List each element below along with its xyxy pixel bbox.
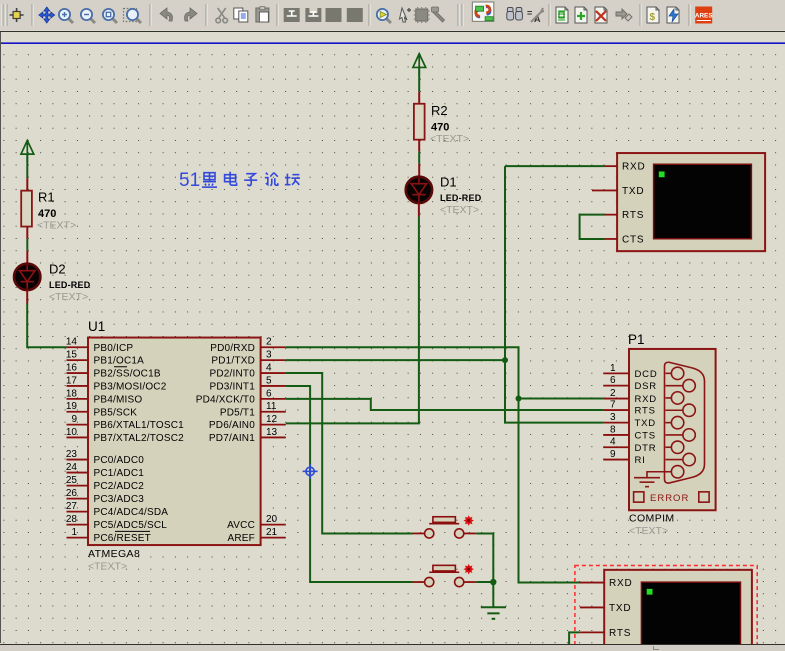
svg-text:RXD: RXD <box>622 162 646 173</box>
toolbar separator <box>149 4 151 26</box>
svg-text:PC2/ADC2: PC2/ADC2 <box>94 481 145 492</box>
svg-text:ARES: ARES <box>695 13 713 20</box>
toolbar grab handle <box>1 4 3 26</box>
wire button1 to ground junction <box>476 534 493 583</box>
icon: hammer tool <box>432 7 445 22</box>
wire VCC to R2 <box>418 68 420 92</box>
wire R1 to D2 <box>26 227 28 239</box>
svg-text:P1: P1 <box>628 332 645 347</box>
P1 DB9 hole left <box>666 471 672 473</box>
P1 DB9 hole right <box>666 459 683 461</box>
terminal 1 pin RXD <box>605 165 618 167</box>
P1 DB9 hole left <box>666 446 672 448</box>
svg-text:<TEXT>: <TEXT> <box>88 561 127 573</box>
toolbar bottom edge <box>0 31 785 33</box>
virtual terminal 1 body <box>617 153 765 251</box>
power terminal VCC (top) <box>413 54 426 75</box>
icon: zoom all <box>103 9 117 23</box>
svg-text:19: 19 <box>66 401 78 412</box>
svg-text:17: 17 <box>66 376 78 387</box>
svg-text:DSR: DSR <box>635 381 657 392</box>
svg-text:TXD: TXD <box>622 186 644 197</box>
svg-text:PD7/AIN1: PD7/AIN1 <box>209 433 255 444</box>
svg-text:LED-RED: LED-RED <box>49 280 91 290</box>
svg-text:D1: D1 <box>440 175 457 190</box>
P1 pin 3 TXD <box>603 422 629 424</box>
svg-text:<TEXT>: <TEXT> <box>430 133 469 145</box>
overbar SS on PB2 <box>114 366 127 368</box>
U1 pin 20 AVCC <box>261 524 286 526</box>
svg-text:=: = <box>527 8 532 18</box>
svg-text:21: 21 <box>266 527 278 538</box>
icon: remove sheet <box>595 7 607 23</box>
svg-text:<TEXT>: <TEXT> <box>37 220 76 232</box>
icon: goto sheet arrows <box>616 9 632 21</box>
U1 right pin 11 PD5/T1 <box>261 411 286 413</box>
svg-text:PD6/AIN0: PD6/AIN0 <box>209 420 255 431</box>
P1 DB9 hole left <box>666 422 672 424</box>
ground symbol <box>481 607 506 619</box>
U1 left pin 10 PB7/XTAL2/TOSC2 <box>67 437 89 439</box>
svg-text:R1: R1 <box>38 190 55 205</box>
P1 pin 9 RI <box>603 459 629 461</box>
svg-text:U1: U1 <box>88 319 105 334</box>
svg-text:<TEXT>: <TEXT> <box>629 525 668 537</box>
svg-text:PD3/INT1: PD3/INT1 <box>209 382 255 393</box>
sheet top border <box>0 42 785 44</box>
P1 DB9 hole left <box>666 397 672 399</box>
svg-text:TXD: TXD <box>635 418 656 429</box>
U1 left pin 27 PC4/ADC4/SDA <box>67 511 89 513</box>
svg-text:11: 11 <box>266 401 277 412</box>
U1 right pin 13 PD7/AIN1 <box>261 437 286 439</box>
selection box (red dashed) around terminal 2 <box>575 566 757 651</box>
U1 left pin 1 PC6/RESET <box>67 537 89 539</box>
junction PD1 net <box>502 357 508 363</box>
svg-text:PB7/XTAL2/TOSC2: PB7/XTAL2/TOSC2 <box>94 433 185 444</box>
svg-text:6: 6 <box>610 375 616 386</box>
svg-text:D2: D2 <box>49 262 66 277</box>
svg-text:<TEXT>: <TEXT> <box>49 291 88 303</box>
wire R2 to D1 <box>418 140 420 152</box>
icon: component/chip <box>414 7 430 23</box>
icon: design explorer <box>556 7 568 23</box>
P1 DB9 hole right <box>666 409 683 411</box>
svg-text:RTS: RTS <box>609 628 631 639</box>
toolbar separator <box>461 4 463 26</box>
U1 left pin 9 PB6/XTAL1/TOSC1 <box>67 424 89 426</box>
icon: pan <box>39 7 55 23</box>
toolbar separator <box>368 4 370 26</box>
U1 left pin 16 PB2/SS/OC1B <box>67 372 89 374</box>
terminal 1 screen <box>654 164 752 239</box>
svg-text:PC5/ADC5/SCL: PC5/ADC5/SCL <box>94 520 168 531</box>
P1 pin 2 RXD <box>603 398 629 400</box>
icon: undo <box>160 8 172 21</box>
connector P1 COMPIM body <box>629 349 716 510</box>
svg-text:23: 23 <box>66 449 78 460</box>
svg-text:TXD: TXD <box>609 603 631 614</box>
terminal 2 pin RTS <box>580 632 604 634</box>
svg-text:24: 24 <box>66 462 78 473</box>
svg-text:14: 14 <box>66 337 78 348</box>
LED D2 <box>14 264 40 290</box>
toolbar separator <box>457 4 459 26</box>
svg-text:PB4/MISO: PB4/MISO <box>94 395 143 406</box>
toolbar separator <box>276 4 278 26</box>
svg-text:<TEXT>: <TEXT> <box>440 204 479 216</box>
svg-text:PB5/SCK: PB5/SCK <box>94 408 138 419</box>
svg-text:PB2/SS/OC1B: PB2/SS/OC1B <box>94 369 161 380</box>
U1 left pin 19 PB5/SCK <box>67 411 89 413</box>
push button SW2 <box>413 566 477 587</box>
icon: block copy <box>284 8 300 22</box>
resistor R2 <box>414 104 425 140</box>
U1 left pin 17 PB3/MOSI/OC2 <box>67 385 89 387</box>
U1 right pin 6 PD4/XCK/T0 <box>261 398 286 400</box>
svg-text:RI: RI <box>635 455 646 466</box>
svg-text:PC0/ADC0: PC0/ADC0 <box>94 455 145 466</box>
icon: new object cursor <box>400 8 412 22</box>
icon: block rotate <box>326 8 342 22</box>
status bar top edge <box>0 644 785 646</box>
svg-text:25: 25 <box>66 475 78 486</box>
svg-text:PC1/ADC1: PC1/ADC1 <box>94 468 145 479</box>
U1 left pin 24 PC1/ADC1 <box>67 472 89 474</box>
U1 right pin 3 PD1/TXD <box>261 359 286 361</box>
P1 DB9 hole right <box>666 434 683 436</box>
P1 pin 1 DCD <box>603 373 629 375</box>
terminal 1 pin RTS <box>605 214 618 216</box>
svg-text:16: 16 <box>66 363 78 374</box>
terminal 1 pin CTS <box>605 238 618 240</box>
status bar mark <box>653 646 659 650</box>
origin marker (blue crosshair) <box>303 464 318 479</box>
P1 DB9 hole left <box>666 373 672 375</box>
svg-text:26: 26 <box>66 488 78 499</box>
svg-text:CTS: CTS <box>622 235 644 246</box>
terminal 1 cursor <box>659 172 665 178</box>
svg-text:28: 28 <box>66 514 78 525</box>
icon: copy <box>234 8 248 22</box>
svg-text:10: 10 <box>66 427 78 438</box>
svg-text:9: 9 <box>71 414 77 425</box>
P1 DB9 connector outline <box>665 362 705 483</box>
svg-text:2: 2 <box>610 388 616 399</box>
U1 left pin 26 PC3/ADC3 <box>67 498 89 500</box>
svg-text:8: 8 <box>610 425 616 436</box>
wire terminal1 RTS-CTS loop <box>580 215 605 239</box>
toolbar separator <box>688 4 690 26</box>
toolbar separator <box>639 4 641 26</box>
terminal 2 screen <box>641 582 740 650</box>
svg-text:DCD: DCD <box>635 369 658 380</box>
svg-text:RTS: RTS <box>622 210 644 221</box>
icon: property assignment <box>527 8 544 24</box>
svg-text:12: 12 <box>266 414 278 425</box>
svg-text:51: 51 <box>179 170 200 191</box>
icon: zoom area <box>124 9 137 22</box>
svg-text:1: 1 <box>610 363 616 374</box>
icon: search binoculars <box>507 8 523 21</box>
svg-text:20: 20 <box>266 514 278 525</box>
LED D1 <box>406 177 432 203</box>
svg-text:RXD: RXD <box>635 394 657 405</box>
svg-text:18: 18 <box>66 389 78 400</box>
icon: bill of materials <box>647 7 659 23</box>
U1 left pin 14 PB0/ICP <box>67 346 89 348</box>
U1 left pin 28 PC5/ADC5/SCL <box>67 524 89 526</box>
svg-text:4: 4 <box>266 363 272 374</box>
wire D1 to U1 pin 12 <box>418 203 420 217</box>
wire terminal2 RTS off-sheet <box>569 633 580 645</box>
icon: goto sheet magnifier <box>377 9 391 23</box>
terminal 1 pin TXD <box>605 190 618 192</box>
icon: electrical rule check <box>667 7 679 23</box>
svg-text:6: 6 <box>266 389 272 400</box>
svg-text:CTS: CTS <box>635 431 656 442</box>
svg-text:PC3/ADC3: PC3/ADC3 <box>94 494 145 505</box>
icon: zoom in <box>59 9 73 23</box>
svg-text:PB3/MOSI/OC2: PB3/MOSI/OC2 <box>94 382 167 393</box>
svg-text:COMPIM: COMPIM <box>629 513 675 525</box>
svg-text:$: $ <box>650 12 656 23</box>
svg-text:5: 5 <box>266 376 272 387</box>
U1 right pin 5 PD3/INT1 <box>261 385 286 387</box>
window left edge <box>0 32 1 643</box>
svg-text:PD4/XCK/T0: PD4/XCK/T0 <box>196 395 255 406</box>
svg-text:470: 470 <box>431 122 449 134</box>
svg-text:PC6/RESET: PC6/RESET <box>94 533 151 544</box>
icon: redo <box>185 8 197 21</box>
terminal 2 cursor <box>647 589 653 595</box>
P1 pin 7 RTS <box>603 409 629 411</box>
overbar RESET on PC6 <box>115 531 150 533</box>
icon: cut <box>216 8 228 23</box>
junction at ground <box>490 579 496 585</box>
U1 pin 21 AREF <box>261 537 286 539</box>
svg-text:3: 3 <box>266 350 272 361</box>
icon: ARES netlist <box>695 7 713 24</box>
U1 left pin 25 PC2/ADC2 <box>67 485 89 487</box>
toolbar separator <box>548 4 550 26</box>
svg-text:R2: R2 <box>431 103 448 118</box>
svg-text:PB1/OC1A: PB1/OC1A <box>94 356 145 367</box>
svg-text:470: 470 <box>38 208 56 220</box>
U1 left pin 23 PC0/ADC0 <box>67 459 89 461</box>
svg-text:2: 2 <box>266 337 272 348</box>
svg-text:RXD: RXD <box>609 578 633 589</box>
svg-text:7: 7 <box>610 400 616 411</box>
terminal 2 pin RXD <box>580 582 604 584</box>
svg-text:15: 15 <box>66 350 78 361</box>
P1 pin 8 CTS <box>603 434 629 436</box>
resistor R1 <box>21 191 32 227</box>
push button SW1 <box>413 517 477 538</box>
toolbar separator <box>205 4 207 26</box>
toolbar separator <box>31 4 33 26</box>
P1 ERROR indicators <box>634 492 644 502</box>
P1 DB9 hole right <box>666 385 683 387</box>
wire PD3/INT1 to button 2 <box>286 386 413 582</box>
icon: block move <box>305 8 321 22</box>
icon: paste <box>256 7 269 22</box>
svg-text:ATMEGA8: ATMEGA8 <box>88 548 140 560</box>
wire junction to ground <box>492 582 494 607</box>
terminal 1 TXD stub extension <box>592 190 605 192</box>
terminal 2 pin TXD <box>580 607 604 609</box>
svg-text:3: 3 <box>610 412 616 423</box>
svg-text:ERROR: ERROR <box>650 493 689 504</box>
wire D2 to U1 pin 14 <box>26 290 28 304</box>
wire PD2/INT0 to button 1 <box>286 373 413 533</box>
wire PD4/XCK/T0 to P1 RTS <box>286 399 603 410</box>
power terminal VCC (left) <box>21 141 34 163</box>
icon: new sheet <box>575 7 587 23</box>
icon: zoom out <box>81 9 95 23</box>
virtual terminal 2 body <box>604 570 752 650</box>
wire PD0/RXD net: pin2 to P1 RXD and terminal2 RXD <box>286 347 580 582</box>
wire button2 to ground junction <box>476 581 493 583</box>
svg-text:RTS: RTS <box>635 406 656 417</box>
U1 right pin 2 PD0/RXD <box>261 346 286 348</box>
P1 internal ground symbol <box>634 472 671 487</box>
svg-text:LED-RED: LED-RED <box>440 193 482 203</box>
svg-text:1: 1 <box>71 527 77 538</box>
icon: block delete <box>347 8 363 22</box>
svg-text:27: 27 <box>66 501 78 512</box>
svg-text:PC4/ADC4/SDA: PC4/ADC4/SDA <box>94 507 169 518</box>
svg-text:DTR: DTR <box>635 443 657 454</box>
wire PD1/TXD net: pin3 to terminal1 RXD and P1 TXD <box>286 359 505 361</box>
svg-text:4: 4 <box>610 437 616 448</box>
junction PD0 net at P1 RXD branch <box>516 396 522 402</box>
svg-text:PD1/TXD: PD1/TXD <box>211 356 255 367</box>
U1 right pin 12 PD6/AIN0 <box>261 424 286 426</box>
svg-text:AVCC: AVCC <box>227 520 255 531</box>
U1 left pin 15 PB1/OC1A <box>67 359 89 361</box>
svg-text:PD2/INT0: PD2/INT0 <box>209 369 255 380</box>
svg-text:PD0/RXD: PD0/RXD <box>210 343 255 354</box>
icon: wire autorouter (active button) <box>472 2 493 21</box>
P1 pin 4 DTR <box>603 446 629 448</box>
status bar <box>0 645 785 651</box>
svg-text:AREF: AREF <box>228 533 255 544</box>
svg-text:PD5/T1: PD5/T1 <box>220 408 255 419</box>
wire VCC to R1 <box>26 154 28 178</box>
microcontroller U1 ATMEGA8 <box>88 338 261 546</box>
svg-text:9: 9 <box>610 449 616 460</box>
title chinese glyphs <box>202 173 217 188</box>
svg-text:PB6/XTAL1/TOSC1: PB6/XTAL1/TOSC1 <box>94 420 185 431</box>
svg-text:PB0/ICP: PB0/ICP <box>94 343 134 354</box>
toolbar <box>0 0 785 30</box>
button SW2 actuator star <box>463 564 474 575</box>
svg-text:13: 13 <box>266 427 278 438</box>
P1 pin 6 DSR <box>603 385 629 387</box>
U1 right pin 4 PD2/INT0 <box>261 372 286 374</box>
U1 left pin 18 PB4/MISO <box>67 398 89 400</box>
icon: centre at cursor <box>10 8 24 22</box>
button SW1 actuator star <box>463 515 474 526</box>
